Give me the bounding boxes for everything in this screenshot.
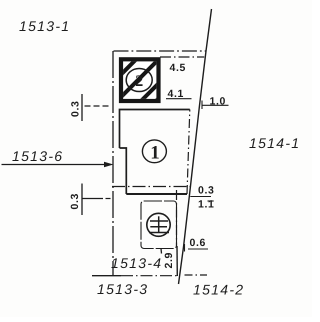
svg-text:1513-1: 1513-1 — [19, 18, 70, 34]
dimension 1.1 with short line — [198, 199, 214, 211]
svg-text:1: 1 — [150, 143, 160, 164]
svg-text:1513-3: 1513-3 — [97, 281, 148, 297]
svg-text:2: 2 — [135, 73, 143, 90]
kanji 主 drawn with strokes — [149, 216, 169, 232]
dimension 1.0 with dimension line and tick — [202, 96, 229, 110]
parcel label 1513-3 — [97, 281, 148, 297]
boundary chain line: second top line to road — [160, 56, 204, 58]
dimension 4.1 with dimension line — [166, 88, 192, 100]
parcel label 1513-6 with leader arrow — [2, 148, 114, 167]
svg-text:2.9: 2.9 — [163, 252, 175, 268]
parcel label 1514-1 — [249, 135, 300, 151]
building number 2 in circle — [126, 69, 152, 92]
dimension 0.3 left lower (rotated) with tick and line — [69, 184, 111, 216]
svg-text:1513-4: 1513-4 — [111, 255, 162, 271]
svg-text:1.1: 1.1 — [198, 199, 214, 211]
svg-text:1514-2: 1514-2 — [193, 282, 244, 298]
svg-text:4.5: 4.5 — [170, 62, 186, 74]
dimension 0.3 right with dimension line — [190, 185, 214, 197]
boundary chain line: between lot 1513-5 and 1513-4 — [112, 186, 190, 188]
road edge slanted line — [179, 9, 212, 284]
boundary chain line: left edge of lot — [112, 51, 114, 276]
svg-text:0.3: 0.3 — [198, 185, 214, 197]
boundary chain line: top edge of lot — [114, 50, 206, 52]
svg-text:1513-6: 1513-6 — [12, 148, 63, 164]
parcel label 1514-2 — [193, 282, 244, 298]
boundary chain line: right edge of lot 1513-4 — [176, 190, 179, 276]
dimension 0.3 left upper (rotated) with tick and dashes — [70, 94, 111, 121]
svg-text:0.3: 0.3 — [70, 101, 82, 117]
parcel label 1513-4 — [111, 255, 162, 271]
tick below annex rectangle bottom edge — [160, 249, 163, 254]
building number 1 in circle — [142, 140, 166, 163]
svg-text:1514-1: 1514-1 — [249, 135, 300, 151]
building 3: annex rectangle with main-building mark — [141, 201, 177, 249]
dimension 2.9 (rotated) — [163, 252, 175, 268]
svg-text:0.6: 0.6 — [190, 237, 206, 249]
boundary line: bottom edge above 1513-3 — [92, 275, 179, 277]
building 1 outline — [120, 110, 190, 195]
parcel label 1513-1 — [19, 18, 70, 34]
main building mark circle — [147, 213, 170, 236]
dimension 0.6 with dimension line and tick — [185, 237, 209, 252]
svg-text:0.3: 0.3 — [69, 193, 81, 209]
dimension 4.5 — [170, 62, 186, 74]
boundary line: short segment above 1514-2 — [185, 274, 208, 276]
building 2: hatched square — [91, 54, 204, 105]
